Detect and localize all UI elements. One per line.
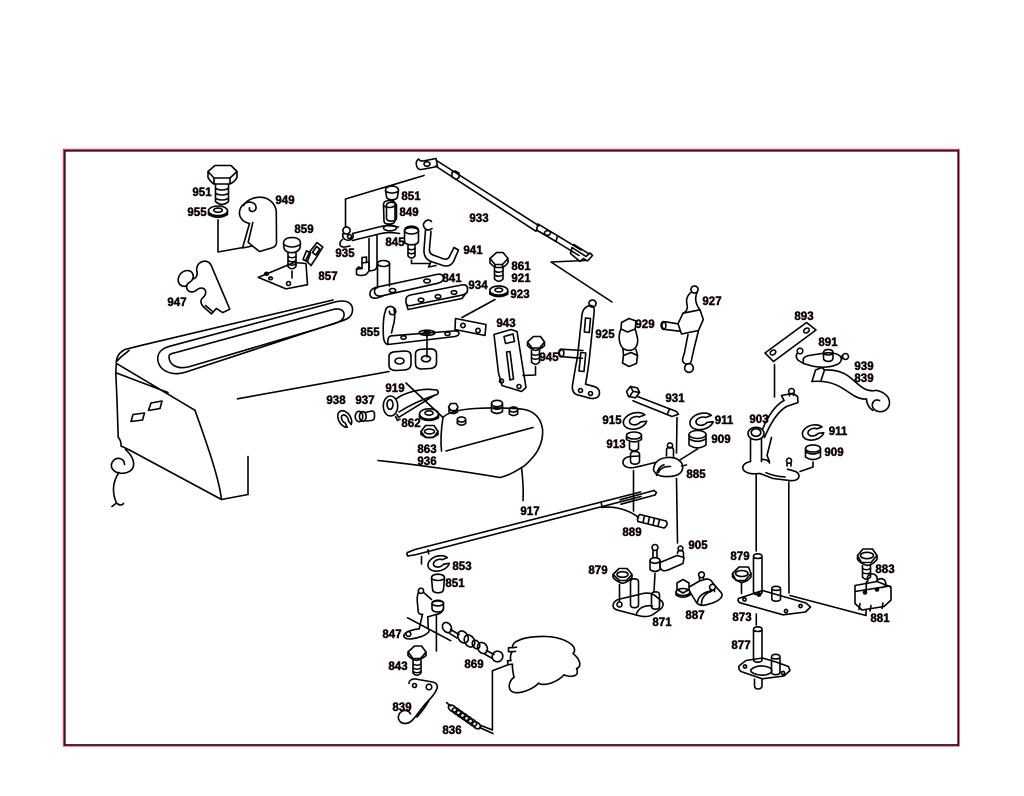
- lever 839: [398, 679, 437, 724]
- spring 889: [602, 507, 668, 528]
- studs on cover lobe: [449, 400, 518, 425]
- strap 893: [765, 323, 816, 362]
- svg-text:927: 927: [702, 296, 721, 308]
- svg-text:941: 941: [463, 245, 483, 257]
- leader 909b to 903: [800, 462, 813, 472]
- svg-text:945: 945: [539, 352, 559, 364]
- svg-text:863: 863: [417, 444, 436, 456]
- svg-text:919: 919: [385, 383, 404, 395]
- svg-text:891: 891: [818, 337, 838, 349]
- bracket 903: [743, 389, 799, 481]
- lever 841: [370, 261, 444, 299]
- svg-text:877: 877: [731, 640, 750, 652]
- svg-text:955: 955: [187, 207, 207, 219]
- plate 877 with studs: [739, 627, 790, 689]
- svg-text:839: 839: [854, 373, 873, 385]
- clip 911b: [801, 423, 825, 442]
- shaft 869: [441, 621, 505, 664]
- bracket 887: [676, 572, 722, 605]
- leader 881: [790, 596, 866, 616]
- svg-text:925: 925: [595, 329, 615, 341]
- bushing 913: [627, 432, 642, 451]
- bolt 945: [523, 337, 545, 376]
- bracket 919: [383, 389, 438, 420]
- svg-text:909: 909: [824, 447, 843, 459]
- bushing 909: [689, 431, 706, 448]
- svg-text:933: 933: [469, 213, 488, 225]
- svg-text:917: 917: [520, 506, 539, 518]
- valve cover pedestal mounts: [389, 349, 437, 371]
- valve cover right lobe: [378, 408, 543, 501]
- svg-text:881: 881: [870, 613, 890, 625]
- svg-text:923: 923: [510, 289, 529, 301]
- stud on 873: [754, 554, 763, 595]
- svg-text:943: 943: [496, 318, 515, 330]
- svg-text:949: 949: [275, 195, 294, 207]
- bolt 845: [405, 226, 430, 263]
- svg-text:937: 937: [355, 395, 374, 407]
- svg-text:947: 947: [167, 297, 186, 309]
- valve cover oval slot outer: [158, 301, 353, 374]
- link 929: [619, 319, 637, 367]
- throttle cable line: [481, 665, 508, 730]
- svg-text:935: 935: [335, 248, 355, 260]
- bushing 849: [387, 202, 397, 221]
- svg-text:931: 931: [665, 393, 685, 405]
- verticals 903 to 873: [756, 475, 789, 594]
- valve cover vent slots: [131, 401, 162, 422]
- lever 891: [796, 348, 848, 367]
- svg-text:843: 843: [388, 661, 407, 673]
- lever 927: [661, 286, 703, 373]
- svg-text:903: 903: [749, 414, 768, 426]
- leader 955 to 949: [218, 220, 243, 252]
- svg-text:893: 893: [794, 311, 813, 323]
- bolt 883: [858, 549, 878, 579]
- leader 936 to cover: [446, 428, 533, 452]
- washer 955: [209, 206, 228, 217]
- leader 885 to 889: [633, 471, 635, 512]
- svg-text:939: 939: [854, 361, 873, 373]
- bolt 859: [284, 238, 301, 279]
- leader 893 to 903: [774, 365, 776, 398]
- svg-text:873: 873: [732, 612, 751, 624]
- svg-text:871: 871: [652, 617, 672, 629]
- svg-text:885: 885: [686, 469, 706, 481]
- svg-text:841: 841: [442, 273, 462, 285]
- leader 917 to 853: [421, 557, 423, 565]
- leader 931 to 885: [676, 418, 679, 454]
- washer 923: [490, 286, 508, 297]
- nut 879b: [733, 567, 752, 583]
- leader 885 to 905: [677, 479, 678, 544]
- bracket 939 839: [812, 368, 890, 412]
- leader 879b: [741, 583, 743, 594]
- svg-text:934: 934: [468, 280, 488, 292]
- svg-text:951: 951: [192, 187, 212, 199]
- leader 909 to 885: [679, 449, 698, 461]
- bushing 851b: [432, 574, 445, 593]
- svg-text:859: 859: [294, 224, 313, 236]
- svg-text:869: 869: [464, 659, 483, 671]
- bracket 943: [494, 330, 526, 392]
- leader through 847: [408, 618, 451, 641]
- leader 879a to 871: [619, 585, 621, 602]
- svg-text:847: 847: [382, 629, 401, 641]
- clip 915: [622, 410, 648, 431]
- bolt 861 921: [490, 253, 508, 282]
- bracket 941: [423, 220, 458, 267]
- leader 923 to cover platform: [462, 300, 495, 318]
- svg-text:862: 862: [401, 418, 420, 430]
- nut 863: [421, 426, 438, 438]
- bracket 855: [383, 306, 459, 344]
- spring 836: [447, 703, 494, 734]
- bracket 905: [650, 545, 684, 572]
- slide 934: [406, 285, 468, 310]
- clamp block 881: [855, 574, 891, 611]
- svg-text:851: 851: [445, 578, 465, 590]
- rod 933: [416, 159, 592, 262]
- svg-text:845: 845: [385, 237, 405, 249]
- leader rod 933 to lever 925: [551, 261, 612, 303]
- leader 883 to 881: [865, 582, 868, 592]
- clip 911: [688, 411, 714, 432]
- svg-text:879: 879: [588, 565, 607, 577]
- nut 879a: [613, 569, 632, 584]
- svg-text:883: 883: [875, 564, 894, 576]
- svg-text:921: 921: [511, 273, 531, 285]
- pin 855 to pedestal: [426, 335, 428, 357]
- valve cover oval slot inner: [169, 309, 344, 368]
- leader 851b to 839: [435, 615, 437, 652]
- carburetor body: [508, 636, 580, 692]
- svg-text:855: 855: [360, 327, 380, 339]
- svg-text:861: 861: [511, 261, 531, 273]
- valve cover body: [116, 300, 443, 500]
- bolt 843: [408, 646, 426, 675]
- svg-text:938: 938: [326, 395, 346, 407]
- bolt 951: [208, 166, 237, 205]
- svg-text:853: 853: [452, 561, 471, 573]
- svg-text:911: 911: [715, 415, 734, 427]
- svg-text:857: 857: [318, 271, 337, 283]
- clip 853: [426, 554, 450, 574]
- leader 905 to 871: [654, 574, 655, 592]
- bracket 885: [623, 443, 687, 477]
- svg-text:889: 889: [622, 527, 641, 539]
- svg-text:839: 839: [392, 702, 411, 714]
- lever assembly 935: [340, 176, 424, 276]
- cap 851: [386, 186, 399, 200]
- lever 925: [559, 300, 600, 399]
- clip 938: [335, 408, 354, 429]
- svg-text:929: 929: [635, 319, 654, 331]
- valve cover mount platform 861: [455, 319, 486, 336]
- valve cover cable squiggle: [111, 450, 133, 507]
- svg-text:879: 879: [730, 551, 749, 563]
- svg-text:911: 911: [829, 426, 848, 438]
- bushing 909b: [806, 445, 821, 460]
- grommet 862: [420, 409, 439, 421]
- svg-text:851: 851: [401, 191, 421, 203]
- clip 947: [178, 261, 230, 314]
- svg-text:915: 915: [602, 415, 622, 427]
- svg-text:905: 905: [688, 540, 708, 552]
- svg-text:849: 849: [399, 207, 418, 219]
- svg-text:836: 836: [442, 725, 461, 737]
- bolt 937: [355, 411, 374, 422]
- leader 873 to 877: [755, 614, 757, 625]
- svg-text:887: 887: [685, 610, 704, 622]
- plate 873: [738, 586, 811, 615]
- svg-text:909: 909: [711, 434, 730, 446]
- svg-text:936: 936: [417, 456, 436, 468]
- frame border: [64, 150, 959, 746]
- lever 847: [404, 588, 444, 639]
- rod 917: [407, 491, 657, 557]
- link 931: [627, 387, 679, 417]
- plate 857: [258, 243, 323, 289]
- bracket 871: [613, 579, 663, 617]
- svg-text:913: 913: [606, 439, 625, 451]
- bracket 949: [239, 197, 276, 251]
